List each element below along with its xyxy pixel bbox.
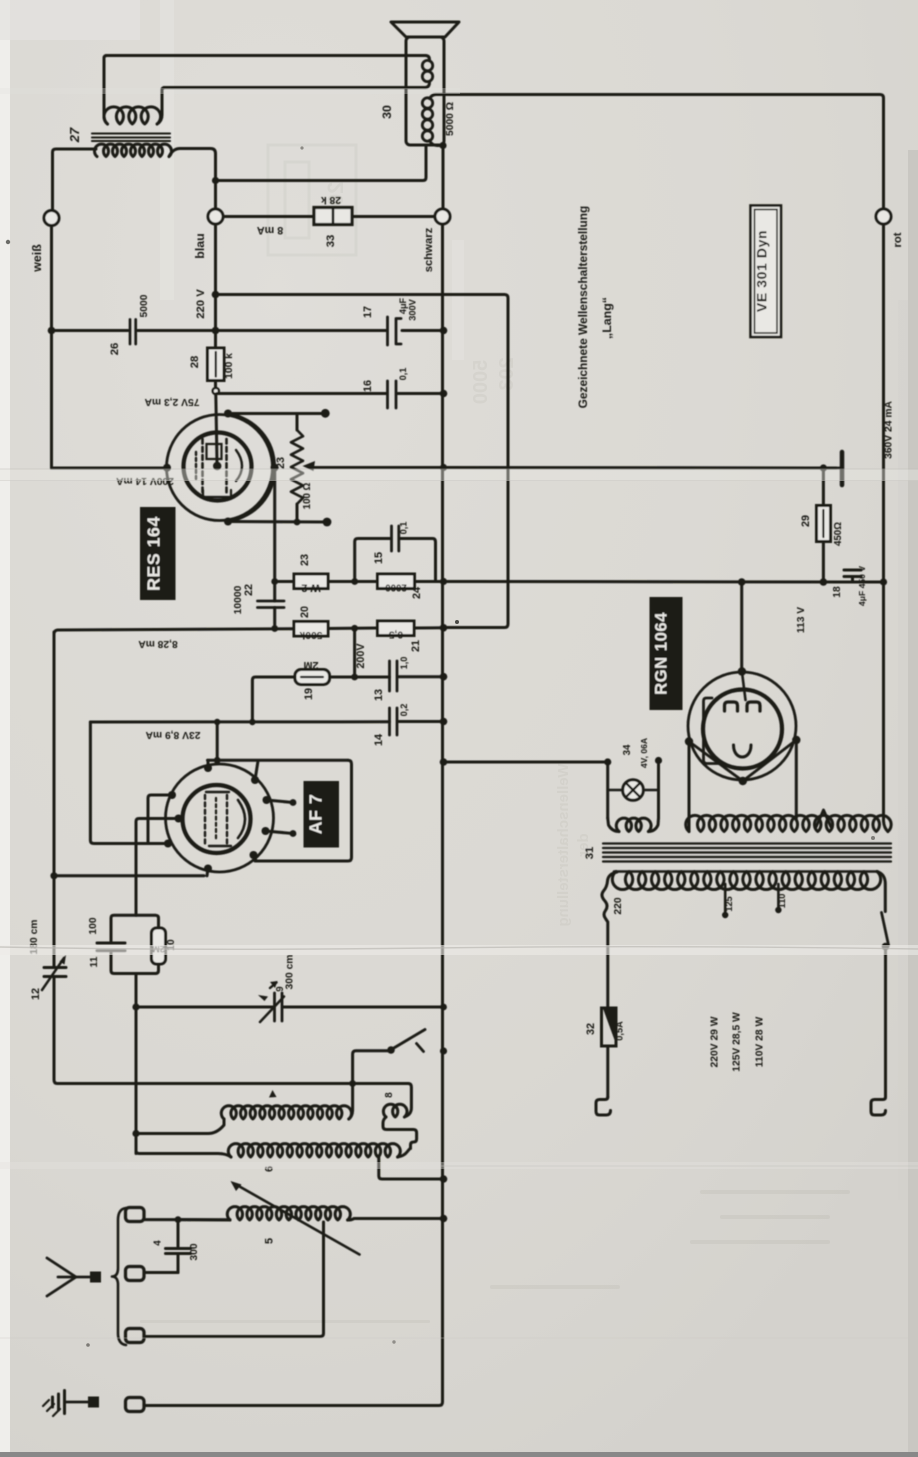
label 2M <box>303 659 318 671</box>
transformer T27 secondary coil <box>94 144 171 156</box>
label 450ohm <box>833 522 844 546</box>
junction rightrail-row581 <box>880 578 887 585</box>
label 8mA <box>257 224 284 236</box>
wire R28 to grid cap <box>214 381 217 389</box>
label 220V <box>195 289 207 319</box>
junction rail-row581 <box>440 578 447 585</box>
junction rail-row330 <box>440 327 448 335</box>
wire af7 pin-topright stub <box>255 761 258 780</box>
label 200V 14mA <box>116 475 174 486</box>
transformer T31 core <box>603 844 891 862</box>
svg-text:blau: blau <box>193 233 207 258</box>
svg-text:5000: 5000 <box>139 294 150 317</box>
svg-text:13: 13 <box>373 689 385 701</box>
tube RES164 grid lead <box>216 394 217 462</box>
wire a1 <box>144 1218 178 1221</box>
junction rgn-row581 <box>738 578 746 586</box>
svg-text:30: 30 <box>380 105 394 119</box>
resistor R23b W2 box <box>294 574 328 589</box>
junction r19-row722 <box>249 719 255 725</box>
label 28k <box>321 194 341 205</box>
arrow tuning <box>231 1181 360 1255</box>
junction blau-row330b <box>212 327 218 333</box>
wire af7 cathode <box>136 819 179 916</box>
label W2 <box>301 582 320 594</box>
label 20 <box>299 606 311 618</box>
pin AF7 bottom <box>204 865 212 873</box>
label 1,0 <box>399 657 409 670</box>
label 28 <box>189 356 201 369</box>
socket A4 <box>126 1398 145 1412</box>
T31 lamp winding <box>608 818 659 832</box>
label 22 <box>243 584 255 596</box>
svg-text:450Ω: 450Ω <box>833 522 844 546</box>
wire l6 right lead <box>398 1148 411 1157</box>
label 0,1 c15 <box>399 522 409 535</box>
label 5000 <box>139 294 150 317</box>
label 30 <box>380 105 394 119</box>
svg-text:33: 33 <box>325 235 337 248</box>
svg-text:100: 100 <box>88 917 99 934</box>
capacitor C11 100 <box>97 943 125 951</box>
wire top rail y94 <box>436 95 884 210</box>
label 23b <box>299 554 311 566</box>
wire row330 c <box>402 329 444 332</box>
pin AF7 left1 <box>168 791 176 799</box>
wire rgn anode <box>740 582 743 668</box>
pin RGN right <box>792 736 800 744</box>
svg-text:1,0: 1,0 <box>399 657 409 670</box>
junction blau-row294 <box>212 291 220 299</box>
svg-text:0,5A: 0,5A <box>615 1021 625 1041</box>
wire rgn right drop <box>795 740 798 818</box>
svg-text:8,28 mA: 8,28 mA <box>138 638 178 649</box>
coil L8 <box>383 1104 407 1117</box>
wire row467 right <box>444 466 837 470</box>
wire row628 left <box>54 629 294 1084</box>
label AF7 box <box>304 781 340 848</box>
pin RES164 bottom <box>224 518 232 526</box>
wire w2 left lead <box>275 580 294 583</box>
wire t31 pri baseline <box>614 870 878 873</box>
svg-text:schwarz: schwarz <box>423 227 435 272</box>
svg-text:4μF 450 V: 4μF 450 V <box>857 566 867 606</box>
label 113V <box>796 607 807 633</box>
resistor R24 2000 <box>378 574 415 589</box>
svg-text:rot: rot <box>892 232 904 247</box>
coil L5 <box>227 1207 350 1220</box>
junction r29 top <box>820 464 827 471</box>
resistor R29 450 <box>817 506 831 542</box>
pin RGN top <box>738 667 746 675</box>
label weiss <box>30 244 44 273</box>
plug left <box>596 1097 611 1115</box>
wire row1007 a <box>136 1006 273 1009</box>
tube RES164 inner <box>184 433 252 501</box>
socket A3 <box>126 1329 145 1343</box>
wire row628 right <box>414 626 444 629</box>
T31 heater winding <box>686 815 891 831</box>
pin AF7 left2 <box>175 815 183 823</box>
junction rail54-row875 <box>50 872 57 879</box>
wire w2 right lead <box>328 580 355 583</box>
label 125 <box>724 896 734 911</box>
switch mains lever <box>882 913 889 946</box>
svg-text:0,1: 0,1 <box>398 368 408 381</box>
capacitor C4 300 <box>166 1220 191 1273</box>
wire coil27-pri left lead <box>104 56 108 125</box>
wire r29 bottom lead <box>822 542 825 583</box>
label r20 value <box>299 629 322 640</box>
svg-text:125V 28,5 W: 125V 28,5 W <box>732 1012 743 1072</box>
wire l7 left lead <box>136 1119 224 1134</box>
svg-text:110V 28 W: 110V 28 W <box>755 1017 766 1068</box>
wire af7 anode row760 <box>208 759 349 762</box>
wire l8 left path <box>383 1117 417 1149</box>
wire c15 left <box>355 539 390 582</box>
label 360V 24mA <box>884 401 895 459</box>
antenna terminal square <box>90 1272 101 1283</box>
svg-text:22: 22 <box>243 584 255 596</box>
wire 217 drop <box>216 722 219 760</box>
lamp L34 bulb <box>608 780 659 801</box>
antenna symbol <box>47 1258 90 1296</box>
wire blau down2 <box>214 295 217 349</box>
resistor R19 2M <box>295 670 330 685</box>
wire row581 long <box>436 580 884 584</box>
tube RES164 electrode box <box>203 444 231 497</box>
svg-text:16: 16 <box>362 380 374 392</box>
junction rail-row467 <box>440 464 447 471</box>
svg-text:300: 300 <box>189 1243 200 1260</box>
label 18 <box>832 586 843 598</box>
plug right <box>871 1097 886 1115</box>
wire lamp feed <box>444 761 606 764</box>
svg-text:14: 14 <box>373 734 385 746</box>
label 17 <box>362 306 374 318</box>
junction row760-217 <box>214 757 221 764</box>
label 15 <box>373 552 385 564</box>
pin RGN left <box>685 737 693 745</box>
svg-text:VE 301 Dyn: VE 301 Dyn <box>754 230 770 312</box>
terminal weiss <box>44 211 59 226</box>
ground symbol <box>43 1391 90 1417</box>
label 5 <box>264 1238 276 1244</box>
svg-text:8 mA: 8 mA <box>257 224 284 236</box>
svg-text:20: 20 <box>299 606 311 618</box>
wire row1083 <box>58 1082 409 1085</box>
switch mains contact <box>882 943 890 951</box>
wire a1-coil5 <box>178 1218 230 1221</box>
pin RGN bottom <box>739 777 747 785</box>
wire af7 pin-br stub <box>254 855 257 861</box>
capacitor C16 0,1 <box>388 381 397 408</box>
pin AF7 top <box>204 764 212 772</box>
T31 primary winding <box>612 872 880 890</box>
label 31 <box>584 847 596 860</box>
label Gezeichnete <box>576 206 590 409</box>
svg-text:200V: 200V <box>355 643 367 669</box>
wire c15 right <box>400 539 436 582</box>
svg-text:300V: 300V <box>408 298 418 320</box>
label 23V 8,9mA <box>145 729 201 740</box>
svg-text:weiß: weiß <box>30 244 44 273</box>
label 75V 2,3mA <box>144 396 200 407</box>
label 300 <box>189 1243 200 1260</box>
capacitor C13 1,0 <box>390 661 398 691</box>
junction w2-left <box>271 578 278 585</box>
label 7 <box>269 1090 277 1098</box>
wire r24 right <box>415 580 436 583</box>
terminal blau <box>208 209 223 224</box>
label 34 <box>622 744 633 755</box>
svg-text:23V 8,9 mA: 23V 8,9 mA <box>145 729 201 740</box>
label 100ohm r23 <box>302 482 313 509</box>
svg-text:28: 28 <box>189 356 201 369</box>
svg-text:220 V: 220 V <box>195 289 207 319</box>
wiper arrow row467 <box>303 461 444 471</box>
wire t31 pri right lead <box>877 872 885 912</box>
resistor R33 28k <box>314 208 352 225</box>
socket A1 <box>126 1208 145 1222</box>
label r10 value <box>152 944 165 954</box>
tube RES164 envelope <box>167 415 273 521</box>
tube AF7 grid dashes <box>205 795 227 844</box>
svg-text:2000: 2000 <box>385 582 407 593</box>
wire af7 rect left <box>90 722 168 844</box>
wire l6 tap drop <box>379 1157 444 1179</box>
capacitor C14 0,2 <box>390 708 398 735</box>
wire rail54 upper <box>53 632 56 966</box>
svg-text:5000: 5000 <box>470 360 492 405</box>
label 110 <box>777 894 787 909</box>
label 21 <box>410 640 422 652</box>
speaker horn <box>391 22 459 37</box>
switch S1 lever <box>393 1030 425 1049</box>
pin RES164 left <box>163 464 171 472</box>
svg-text:0,2: 0,2 <box>399 704 409 717</box>
wire r19 leads <box>252 677 354 722</box>
T31 tap 110 <box>775 884 781 913</box>
label 9 <box>275 986 286 992</box>
svg-text:32: 32 <box>585 1023 597 1035</box>
svg-text:110: 110 <box>777 894 787 909</box>
wire row1007 b <box>284 1006 444 1009</box>
pin AF7 topright <box>251 776 259 784</box>
wire schwarz stub <box>442 146 445 210</box>
resistor R23 100ohm zigzag <box>291 414 303 523</box>
tube RGN diag right <box>743 740 797 781</box>
svg-text:31: 31 <box>584 847 596 860</box>
wire switch riser <box>353 1051 389 1084</box>
label Lang <box>600 297 614 339</box>
svg-text:29: 29 <box>800 515 812 527</box>
antenna brace <box>112 1208 126 1345</box>
label 0,1 c16 <box>398 368 408 381</box>
wire c13 right <box>399 675 444 678</box>
svg-text:360V 24 mA: 360V 24 mA <box>884 401 895 459</box>
label rot <box>892 232 904 247</box>
junction rail-row721 <box>440 718 448 726</box>
junction rail-row1007 <box>440 1004 447 1011</box>
wire c22 bottom <box>273 608 276 629</box>
svg-text:125: 125 <box>724 896 734 911</box>
svg-text:W 2: W 2 <box>301 582 320 594</box>
svg-text:0,1: 0,1 <box>399 522 409 535</box>
wire weiss-to-coil27 top corner <box>53 149 97 211</box>
pin RES164 right <box>271 464 279 472</box>
wire c13 left <box>355 676 390 679</box>
wire blau down <box>214 224 217 295</box>
label r24 value <box>385 582 407 593</box>
stub af7 right2 <box>266 830 297 837</box>
tube RES164 cathode marks <box>196 450 242 481</box>
wire line y87 to speaker <box>164 86 425 89</box>
svg-text:10000: 10000 <box>233 585 244 614</box>
fuse F32 <box>602 1008 617 1046</box>
svg-text:23: 23 <box>299 554 311 566</box>
label 4uF450V <box>857 566 867 606</box>
wire r29 top lead <box>822 468 825 506</box>
wire combo top right <box>136 915 159 928</box>
wire speaker frame leg <box>216 145 427 181</box>
label 0,5A <box>615 1021 625 1041</box>
tube AF7 top marks <box>206 792 231 846</box>
wire coil27-pri right lead <box>157 88 165 125</box>
wire r24 left <box>355 580 378 583</box>
svg-text:75V 2,3 mA: 75V 2,3 mA <box>144 396 200 407</box>
label VE301Dyn box <box>751 206 782 338</box>
label 29 <box>800 515 812 527</box>
junction row1083-352 <box>349 1080 356 1087</box>
svg-text:26: 26 <box>109 343 121 356</box>
label 19 <box>303 688 315 700</box>
tube RGN1064 inner <box>703 690 782 769</box>
junction row722-217 <box>214 719 220 725</box>
wire coil27-sec right lead <box>169 149 216 210</box>
transformer T27 core <box>92 134 170 142</box>
pin AF7 left3 <box>164 840 172 848</box>
wire combo bottom right <box>136 964 159 974</box>
label 10 <box>166 939 177 951</box>
junction rail-row628 <box>440 624 448 632</box>
svg-text:RGN 1064: RGN 1064 <box>652 612 671 695</box>
junction weiss-row330 <box>48 327 56 335</box>
junction cath-1133 <box>132 1130 139 1137</box>
svg-text:5: 5 <box>264 1238 276 1244</box>
label 26 <box>109 343 121 356</box>
wire main rail <box>144 224 443 1406</box>
svg-text:„Lang“: „Lang“ <box>600 297 614 339</box>
junction cath-1007 <box>132 1003 139 1010</box>
junction rail-row393 <box>440 390 448 398</box>
svg-text:4: 4 <box>153 1240 164 1246</box>
label 10000 <box>233 585 244 614</box>
node grid cap RES164 <box>213 388 219 394</box>
junction rail-row676 <box>440 673 448 681</box>
wire anode drop <box>273 468 276 602</box>
svg-text:11: 11 <box>89 956 100 967</box>
pin RES164 top <box>224 410 232 418</box>
label 12 <box>30 988 42 1000</box>
wire right rail lower <box>882 582 885 822</box>
pin AF7 right1 <box>263 796 271 804</box>
label r21 value <box>389 629 404 640</box>
capacitor C15 0,1 <box>392 526 399 551</box>
capacitor C18 4uF <box>844 570 861 582</box>
resistor R20 500k <box>294 622 328 637</box>
wire row216 left <box>223 215 314 218</box>
label 200V node <box>355 643 367 669</box>
label 8 <box>384 1092 395 1098</box>
wire c14 right <box>399 720 444 723</box>
T31 tap 125 <box>722 884 728 918</box>
tube RGN anode lead <box>742 672 746 701</box>
wire row875 <box>55 874 204 877</box>
speaker voice coil <box>422 56 432 88</box>
wire l5 left lead <box>178 1218 230 1221</box>
wire l5 tap <box>144 1222 324 1337</box>
tube AF7 anode arc <box>238 800 245 838</box>
wire top line y55 to speaker <box>106 54 426 57</box>
wire cathode down <box>135 974 138 1154</box>
wire blau stub <box>214 188 217 209</box>
node row522 end <box>323 518 332 527</box>
stub af7 right1 <box>267 799 297 806</box>
wire right rail upper <box>882 224 885 582</box>
wire l5 right lead <box>348 1219 444 1221</box>
svg-text:2M: 2M <box>303 659 318 671</box>
junction r23-row522 <box>294 519 301 526</box>
bleed-through ghosts <box>140 145 850 1323</box>
svg-text:100 k: 100 k <box>224 353 235 379</box>
capacitor C22 10000 <box>258 601 285 608</box>
junction blau-row330 <box>212 327 220 335</box>
coil L6 <box>228 1144 400 1157</box>
svg-text:113 V: 113 V <box>796 607 807 633</box>
junction row677-354 <box>351 674 358 681</box>
label 14 <box>373 734 385 746</box>
wire l6 left lead <box>136 1151 231 1158</box>
wire row393 b <box>398 392 444 395</box>
junction rail-1179 <box>440 1175 448 1183</box>
wire grid row468 <box>52 464 168 468</box>
svg-text:27: 27 <box>67 127 82 143</box>
wire rgn left drop <box>688 742 691 821</box>
label 220 tap <box>613 897 624 914</box>
label 5000 Ohm <box>445 102 456 136</box>
wire l7 right lead <box>349 1084 353 1120</box>
label 180cm <box>29 920 40 955</box>
wire a2 <box>144 1271 178 1274</box>
wire combo bottom left <box>111 953 136 974</box>
label 27 <box>67 127 82 143</box>
tube RGN plate bracket <box>704 698 722 764</box>
wire row330 b <box>138 329 386 332</box>
svg-text:0,5: 0,5 <box>389 629 404 640</box>
label RGN1064 box <box>650 597 683 710</box>
junction rail-row762 <box>440 758 448 766</box>
svg-text:300 cm: 300 cm <box>285 955 296 990</box>
wire af7 pin-top stub <box>207 760 210 768</box>
label schwarz <box>423 227 435 272</box>
junction row628-354 <box>351 625 358 632</box>
tube RGN1064 envelope <box>688 672 796 780</box>
capacitor C17 4uF <box>388 317 402 345</box>
wire 354 drop <box>353 628 356 677</box>
label mains table <box>710 1012 766 1072</box>
junction a1-c4 <box>175 1216 182 1223</box>
